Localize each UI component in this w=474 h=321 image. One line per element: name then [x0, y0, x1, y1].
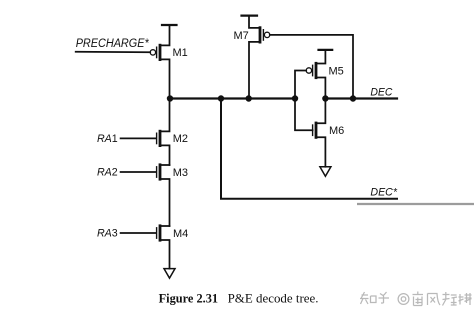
node DEC* tap: [218, 95, 224, 101]
svg-text:M7: M7: [234, 30, 249, 42]
svg-text:M2: M2: [173, 133, 188, 145]
node M7 drain: [246, 95, 252, 101]
svg-text:M4: M4: [173, 228, 188, 240]
svg-text:M5: M5: [329, 65, 344, 77]
svg-text:RA2: RA2: [97, 167, 118, 179]
char at: [398, 294, 409, 305]
transistor M6 (NMOS of output inverter): [313, 99, 326, 167]
svg-text:DEC: DEC: [370, 87, 393, 99]
svg-text:PRECHARGE*: PRECHARGE*: [76, 36, 150, 50]
node line DEC* dynamic (left segment): [170, 97, 296, 99]
transistor M3 (NMOS, RA2): [157, 165, 170, 226]
gray artifact line right edge: [357, 203, 474, 205]
node line DEC (right segment): [325, 97, 397, 99]
wire PRECHARGE* gate lead: [76, 51, 151, 53]
svg-text:M1: M1: [173, 47, 188, 59]
svg-text:RA3: RA3: [97, 228, 118, 240]
wire RA3 gate lead: [121, 232, 156, 234]
svg-text:Figure 2.31: Figure 2.31: [159, 292, 219, 306]
node M1/M2 junction: [167, 95, 173, 101]
svg-text:P&E decode tree.: P&E decode tree.: [228, 292, 319, 306]
node junction dots: [167, 95, 356, 101]
svg-text:DEC*: DEC*: [370, 187, 397, 199]
node inverter output: [322, 95, 328, 101]
ground under M6: [320, 167, 331, 177]
VDD rail of M5: [319, 49, 333, 51]
svg-text:RA1: RA1: [97, 133, 118, 145]
transistor M5 (PMOS of output inverter): [306, 50, 325, 99]
node M7 gate feedback: [350, 95, 356, 101]
watermark 知乎 @南风轻拂 (drawn strokes): [360, 292, 472, 306]
transistor M2 (NMOS, RA1): [157, 99, 170, 166]
wire RA1 gate lead: [121, 137, 156, 139]
char zhi: [360, 292, 376, 304]
transistor M4 (NMOS, RA3): [157, 226, 170, 269]
char nan: [413, 292, 424, 306]
svg-text:M6: M6: [329, 125, 344, 137]
wire RA2 gate lead: [121, 171, 156, 173]
ground under M4: [164, 269, 175, 279]
svg-text:M3: M3: [173, 167, 188, 179]
wire M5/M6 gate tie to node: [295, 71, 313, 131]
char feng: [428, 294, 441, 306]
char fu: [459, 293, 472, 305]
transistor M1 (PMOS precharge): [150, 25, 169, 99]
char qing: [443, 292, 458, 306]
transistor M7 (PMOS keeper, mirrored): [249, 16, 270, 99]
node inverter input: [292, 95, 298, 101]
char hu: [379, 292, 390, 303]
VDD rail of M1: [162, 24, 177, 26]
wire DEC* tap down and across: [221, 99, 397, 199]
wire M7 gate to DEC feedback: [270, 35, 353, 99]
VDD rail of M7: [242, 15, 258, 17]
